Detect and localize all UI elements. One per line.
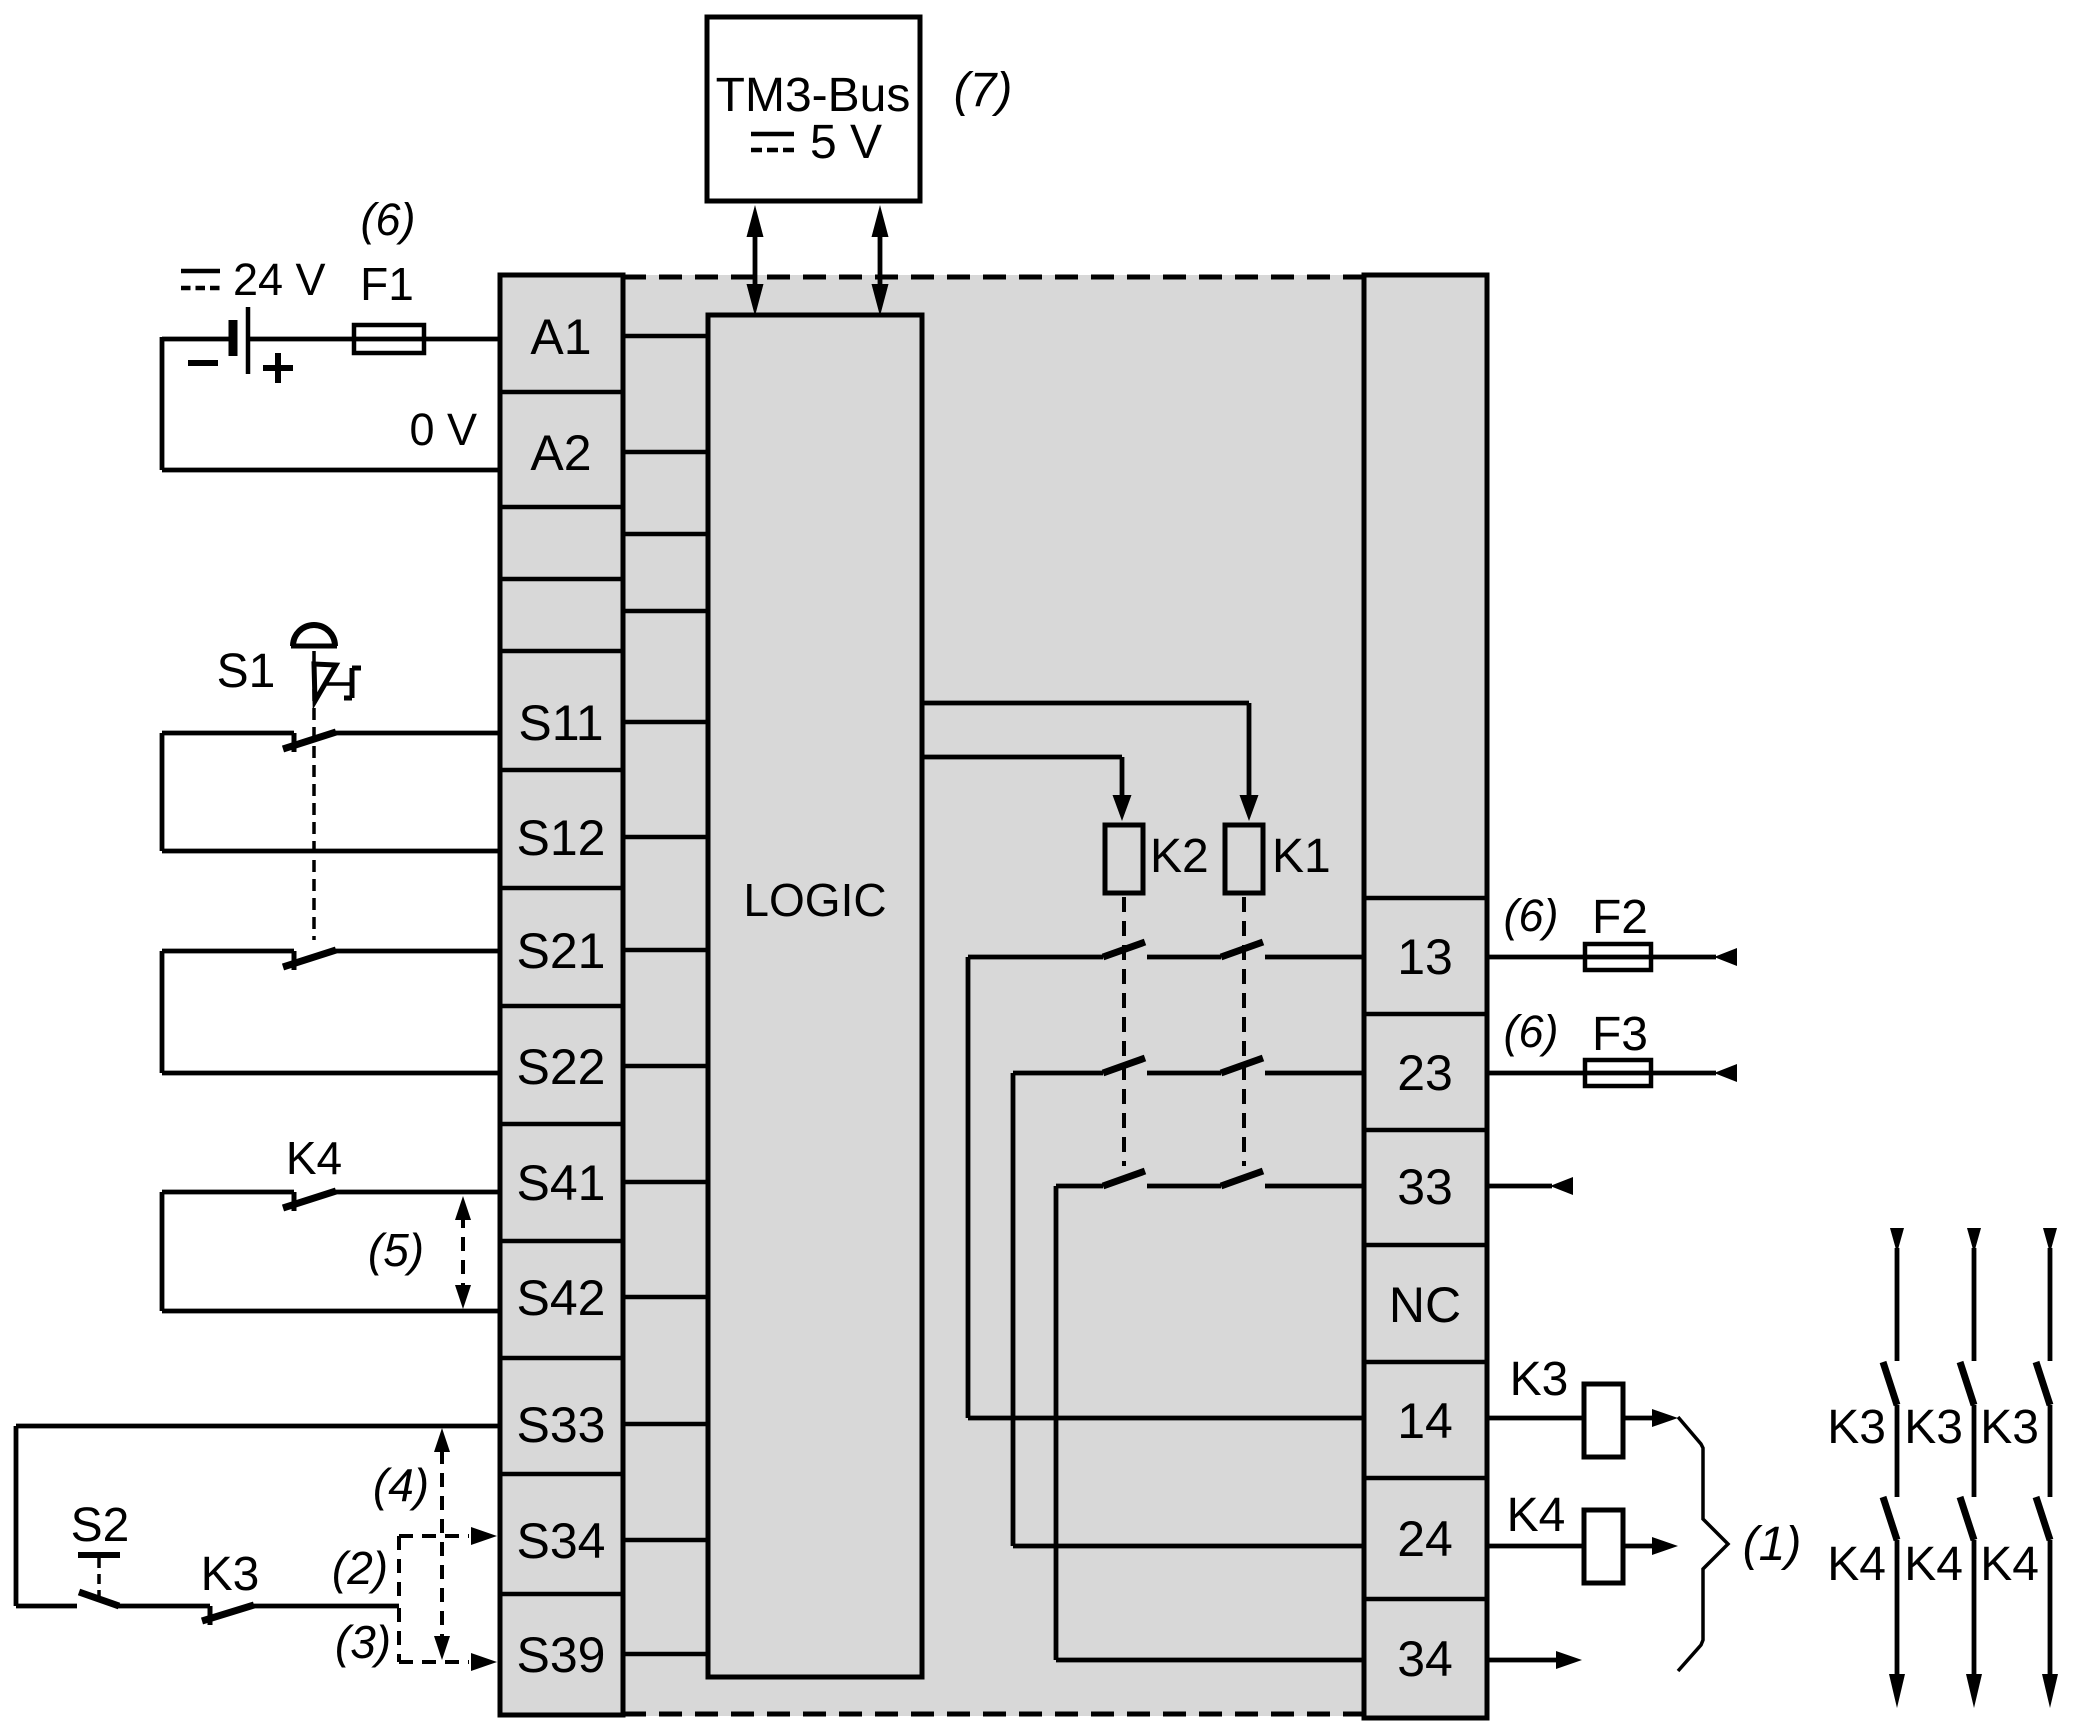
stub wire S22 to LOGIC [623, 1064, 708, 1069]
terminal label A1 [530, 309, 591, 365]
stub wire unused terminal to LOGIC [623, 532, 708, 537]
wire contact S1.1 to terminal S11 [335, 731, 500, 736]
feedback contact K4 label [286, 1132, 342, 1184]
terminal label S11 [518, 695, 603, 751]
bus arrow left (double-headed) [747, 205, 764, 316]
LOGIC block U1 [708, 315, 922, 1677]
svg-text:K2: K2 [1150, 830, 1209, 883]
dashed link (2) to S34 [399, 1527, 497, 1604]
fuse F3 [1585, 1060, 1651, 1086]
note label (4) [373, 1459, 429, 1511]
svg-text:33: 33 [1397, 1159, 1453, 1215]
note label (6) at F2 [1504, 890, 1559, 941]
wire 0 V return (left drop) [160, 337, 165, 470]
svg-text:S1: S1 [217, 645, 276, 698]
wire contact S1.2 to terminal S21 [335, 949, 500, 954]
wire terminal 33 to supply [1487, 1177, 1573, 1195]
note label (6) at F3 [1504, 1006, 1559, 1057]
wire terminal S33 feedback loop top [16, 1424, 500, 1429]
note label (3) [335, 1616, 391, 1668]
svg-text:(2): (2) [332, 1542, 388, 1594]
svg-text:S33: S33 [517, 1397, 606, 1453]
left terminal block outline [500, 275, 623, 1715]
load contact K4 (column 2) label [1904, 1538, 1963, 1591]
wire terminal 34 out [1487, 1651, 1582, 1669]
start button S2 label [71, 1499, 130, 1552]
battery B1 plates [233, 307, 248, 374]
wire loop to contact K4 (S41 row) [162, 1190, 294, 1195]
terminal label S12 [517, 810, 606, 866]
svg-text:34: 34 [1397, 1631, 1453, 1687]
svg-text:S34: S34 [517, 1513, 606, 1569]
terminal label 23 [1397, 1045, 1453, 1101]
stub wire S41 to LOGIC [623, 1180, 708, 1185]
dimension arrow (4) S33-S39 [434, 1428, 450, 1660]
wire 0 V to terminal A2 [162, 468, 500, 473]
wire contact row 23 down to terminal 24 [1013, 1073, 1364, 1546]
svg-text:K4: K4 [1904, 1538, 1963, 1591]
svg-text:13: 13 [1397, 929, 1453, 985]
svg-text:K4: K4 [1980, 1538, 2039, 1591]
stub wire S21 to LOGIC [623, 948, 708, 953]
contact S1.1 wire from loop to contact (S11 row) [162, 731, 294, 736]
svg-text:(4): (4) [373, 1459, 429, 1511]
svg-text:S42: S42 [517, 1270, 606, 1326]
svg-text:S39: S39 [517, 1627, 606, 1683]
net label 0 V [409, 404, 477, 455]
wire S41 loop vertical [160, 1192, 165, 1311]
wire terminal 14 to relay K3 coil [1487, 1416, 1584, 1421]
fuse F2 [1585, 944, 1651, 970]
svg-text:(5): (5) [368, 1224, 424, 1276]
load contact K3 (column 2) label [1904, 1401, 1963, 1454]
svg-text:K3: K3 [201, 1548, 260, 1601]
wire S11 loop vertical [160, 733, 165, 851]
DC symbol 24 V supply [181, 271, 220, 288]
wire contact K4 to terminal S41 [335, 1190, 500, 1195]
wire LOGIC to relay K2 coil [922, 757, 1132, 821]
svg-text:K3: K3 [1827, 1401, 1886, 1454]
stub wire S39 to LOGIC [623, 1652, 708, 1657]
load line 1 outgoing arrow [1889, 1540, 1905, 1708]
svg-text:K1: K1 [1272, 830, 1331, 883]
fuse F1 [354, 258, 424, 353]
load contact K4 (column 2) blade [1960, 1497, 1974, 1540]
svg-text:23: 23 [1397, 1045, 1453, 1101]
terminal label S34 [517, 1513, 606, 1569]
load contact K4 (column 3) blade [2036, 1497, 2050, 1540]
load line 2 incoming arrow [1967, 1228, 1981, 1361]
svg-text:LOGIC: LOGIC [743, 874, 886, 926]
wire terminal 24 to relay K4 coil [1487, 1544, 1584, 1549]
contact K3 fixed tick [208, 1606, 213, 1625]
relay coil K2 label [1150, 830, 1209, 883]
load contact K4 (column 1) label [1827, 1538, 1886, 1591]
terminal label 13 [1397, 929, 1453, 985]
terminal label 34 [1397, 1631, 1453, 1687]
relay coil K3 (external) [1584, 1384, 1623, 1457]
module boundary dashed top edge [623, 275, 1362, 280]
svg-text:S22: S22 [517, 1039, 606, 1095]
fuse F3 label [1592, 1008, 1648, 1061]
terminal label S22 [517, 1039, 606, 1095]
svg-text:F3: F3 [1592, 1008, 1648, 1061]
wire left vertical to S2 [16, 1604, 77, 1609]
svg-text:(6): (6) [361, 194, 416, 245]
note label (2) [332, 1542, 388, 1594]
svg-text:TM3-Bus: TM3-Bus [716, 69, 911, 122]
svg-text:S21: S21 [517, 923, 606, 979]
terminal label S21 [517, 923, 606, 979]
stub wire S42 to LOGIC [623, 1295, 708, 1300]
contact S1.1 blade [283, 732, 336, 749]
terminal label S33 [517, 1397, 606, 1453]
contact K4 blade [283, 1191, 336, 1208]
wire between K3 and K4 contacts column 1 [1895, 1405, 1900, 1497]
svg-text:(6): (6) [1504, 890, 1559, 941]
load contact K3 (column 3) blade [2036, 1362, 2050, 1405]
S2 actuator link dashed [97, 1558, 101, 1599]
contact S1.1 fixed tick [292, 733, 297, 752]
K2 actuating link dashed [1122, 897, 1126, 1166]
safety contact row K2/K1 to terminal 13 [968, 942, 1364, 957]
dimension arrow (5) S41-S42 [455, 1196, 471, 1309]
wire terminal 13 through fuse F2 to supply [1487, 948, 1737, 966]
wire S21 loop vertical [160, 951, 165, 1073]
emergency stop S1 label [217, 645, 276, 698]
note label (1) [1743, 1518, 1802, 1571]
stub wire S11 to LOGIC [623, 720, 708, 725]
svg-text:(6): (6) [1504, 1006, 1559, 1057]
wire loop to terminal S12 [162, 849, 500, 854]
contact S2 blade (NO) [79, 1592, 119, 1606]
svg-text:K3: K3 [1980, 1401, 2039, 1454]
terminal label 24 [1397, 1511, 1453, 1567]
S1 actuator triangle [314, 664, 336, 701]
svg-text:A1: A1 [530, 309, 591, 365]
safety module body (grey area) [500, 275, 1487, 1716]
DC symbol in TM3-Bus box [751, 134, 794, 150]
relay coil K2 [1105, 825, 1143, 893]
contact S1.2 wire from loop to contact (S21 row) [162, 949, 294, 954]
wire S2 to K3 contact [118, 1604, 210, 1609]
contact K4 fixed tick [292, 1192, 297, 1211]
wire start-circuit left vertical [14, 1426, 19, 1606]
wire 24V supply left to battery [162, 337, 233, 342]
terminal label S42 [517, 1270, 606, 1326]
battery minus sign [188, 360, 218, 366]
svg-text:5 V: 5 V [810, 116, 882, 169]
relay coil K1 [1225, 825, 1263, 893]
terminal label A2 [530, 425, 591, 481]
S2 pushbutton actuator bar [78, 1552, 120, 1558]
terminal label NC [1389, 1277, 1461, 1333]
value label 5 V [810, 116, 882, 169]
terminal label 33 [1397, 1159, 1453, 1215]
wire between K3 and K4 contacts column 2 [1972, 1405, 1977, 1497]
terminal label S41 [517, 1155, 606, 1211]
group brace (1) [1678, 1417, 1728, 1671]
S1 mushroom head [291, 625, 337, 646]
svg-text:K4: K4 [1507, 1489, 1566, 1542]
load line 3 incoming arrow [2043, 1228, 2057, 1361]
svg-text:S12: S12 [517, 810, 606, 866]
svg-text:S11: S11 [518, 695, 603, 751]
load contact K4 (column 1) blade [1883, 1497, 1897, 1540]
relay coil K4 (external) [1584, 1510, 1623, 1583]
terminal label S39 [517, 1627, 606, 1683]
svg-text:S41: S41 [517, 1155, 606, 1211]
wire between K3 and K4 contacts column 3 [2048, 1405, 2053, 1497]
svg-text:NC: NC [1389, 1277, 1461, 1333]
fuse F2 label [1592, 891, 1648, 944]
svg-text:K4: K4 [286, 1132, 342, 1184]
svg-text:K3: K3 [1904, 1401, 1963, 1454]
load contact K3 (column 2) blade [1960, 1362, 1974, 1405]
svg-text:A2: A2 [530, 425, 591, 481]
S1 latch-release symbol [327, 668, 361, 698]
load contact K3 (column 1) label [1827, 1401, 1886, 1454]
battery plus sign [263, 353, 293, 383]
arrow from K4 coil [1623, 1537, 1678, 1555]
note label (6) at F1 [361, 194, 416, 245]
load line 2 outgoing arrow [1966, 1540, 1982, 1708]
stub wire unused terminal to LOGIC [623, 609, 708, 614]
value label 24 V [233, 254, 326, 305]
load line 3 outgoing arrow [2042, 1540, 2058, 1708]
arrow from K3 coil [1623, 1409, 1678, 1427]
wire contact row 33 down to terminal 34 [1056, 1186, 1364, 1660]
stub wire A1 to LOGIC [623, 334, 708, 339]
svg-text:(7): (7) [954, 64, 1013, 117]
relay coil K1 label [1272, 830, 1331, 883]
contact S1.2 blade [283, 950, 336, 967]
note label (5) [368, 1224, 424, 1276]
right terminal block outline [1364, 275, 1487, 1718]
safety contact row K2/K1 to terminal 33 [1056, 1171, 1364, 1186]
svg-text:(3): (3) [335, 1616, 391, 1668]
terminal label 14 [1397, 1393, 1453, 1449]
stub wire S34 to LOGIC [623, 1538, 708, 1543]
stub wire S33 to LOGIC [623, 1422, 708, 1427]
svg-text:S2: S2 [71, 1499, 130, 1552]
wire loop to terminal S42 [162, 1309, 500, 1314]
bus arrow right (double-headed) [872, 205, 889, 316]
S1 actuator link dashed [312, 651, 316, 940]
load line 1 incoming arrow [1890, 1228, 1904, 1361]
start-circuit contact K3 label [201, 1548, 260, 1601]
svg-text:0 V: 0 V [409, 404, 477, 455]
contact K3 blade [202, 1605, 254, 1621]
external relay K3 label [1510, 1353, 1569, 1406]
stub wire A2 to LOGIC [623, 450, 708, 455]
svg-text:K3: K3 [1510, 1353, 1569, 1406]
wire loop to terminal S22 [162, 1071, 500, 1076]
safety contact row K2/K1 to terminal 23 [1013, 1058, 1364, 1073]
wire LOGIC to relay K1 coil [922, 703, 1259, 821]
wire terminal 23 through fuse F3 to supply [1487, 1064, 1737, 1082]
note label (7) [954, 64, 1013, 117]
wire contact row 13 down to terminal 14 [968, 957, 1364, 1418]
wire contact K3 to node (2)/(3) [253, 1604, 399, 1609]
load contact K3 (column 3) label [1980, 1401, 2039, 1454]
dashed link (3) to S39 [399, 1608, 497, 1671]
svg-text:F1: F1 [360, 258, 414, 310]
K1 actuating link dashed [1242, 897, 1246, 1166]
contact S1.2 fixed tick [292, 951, 297, 970]
svg-text:24: 24 [1397, 1511, 1453, 1567]
svg-text:K4: K4 [1827, 1538, 1886, 1591]
svg-text:F2: F2 [1592, 891, 1648, 944]
external relay K4 label [1507, 1489, 1566, 1542]
module boundary dashed bottom edge [623, 1712, 1362, 1717]
svg-text:(1): (1) [1743, 1518, 1802, 1571]
TM3-Bus interface box [707, 17, 920, 201]
load contact K4 (column 3) label [1980, 1538, 2039, 1591]
svg-text:24 V: 24 V [233, 254, 326, 305]
load contact K3 (column 1) blade [1883, 1362, 1897, 1405]
stub wire S12 to LOGIC [623, 835, 708, 840]
wire battery to fuse F1 to terminal A1 [248, 337, 500, 342]
svg-text:14: 14 [1397, 1393, 1453, 1449]
